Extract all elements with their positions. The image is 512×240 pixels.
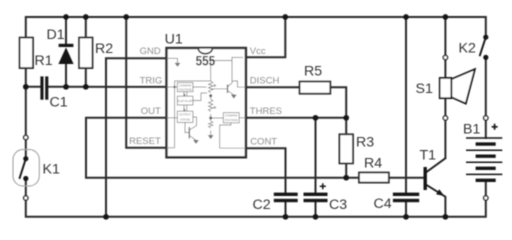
wire THRES	[246, 117, 346, 119]
svg-text:TRIG: TRIG	[140, 76, 163, 87]
speaker S1	[440, 69, 475, 103]
svg-text:DISCH: DISCH	[250, 76, 280, 87]
svg-text:R3: R3	[356, 135, 374, 151]
wire R3 top lead	[345, 118, 347, 135]
svg-text:THRES: THRES	[250, 106, 282, 117]
svg-text:VOLTAGE: VOLTAGE	[225, 118, 238, 122]
wire B1 bottom stub	[485, 180, 487, 196]
svg-text:FLIP-FLOP: FLIP-FLOP	[178, 99, 193, 103]
wire D1 top	[65, 17, 67, 44]
svg-text:C4: C4	[374, 196, 392, 212]
svg-text:D1: D1	[47, 27, 65, 43]
svg-text:RESET: RESET	[129, 136, 161, 147]
wire S1 top	[444, 17, 446, 55]
capacitor C4	[393, 193, 419, 203]
wire bottom rail	[26, 200, 486, 217]
resistor R3	[339, 134, 353, 163]
svg-text:R4: R4	[364, 156, 382, 172]
svg-text:K2: K2	[459, 41, 476, 57]
wire R2 bottom stub	[85, 68, 87, 87]
svg-text:Vcc: Vcc	[250, 46, 266, 57]
svg-text:555: 555	[196, 53, 216, 68]
resistor R4	[359, 173, 389, 183]
U1 internal box text	[178, 83, 238, 122]
U1 internal ground symbols	[175, 63, 236, 143]
wire Vcc riser	[246, 17, 285, 57]
wire K1 bottom link	[25, 179, 27, 196]
svg-text:C3: C3	[329, 197, 347, 213]
wire top rail	[26, 17, 486, 38]
svg-text:CONT: CONT	[250, 136, 277, 147]
svg-text:GND: GND	[140, 46, 161, 57]
wire R3 bottom lead	[345, 163, 347, 177]
switch K2	[480, 35, 489, 60]
wire GND net	[106, 58, 167, 217]
switch K1	[13, 150, 39, 187]
resistor R1	[20, 38, 33, 69]
B1 polarity plus	[492, 124, 498, 130]
svg-text:STAGE: STAGE	[180, 117, 190, 121]
battery B1	[466, 138, 502, 180]
U1 internal diagram	[167, 57, 246, 148]
wire R4 to T1 base	[389, 177, 424, 179]
U1 internal junction dots	[173, 86, 212, 120]
wire T1 collector riser	[444, 120, 446, 158]
capacitor C2	[274, 193, 298, 203]
svg-text:VOLTAGE: VOLTAGE	[178, 87, 191, 91]
wire B1 top stub	[485, 120, 487, 138]
svg-text:R1: R1	[35, 53, 53, 69]
U1 notch	[198, 49, 212, 54]
svg-text:B1: B1	[463, 121, 480, 137]
wire C2 bottom	[285, 202, 287, 217]
svg-text:C2: C2	[253, 197, 271, 213]
wire D1 bottom	[65, 64, 67, 87]
svg-text:S1: S1	[416, 81, 433, 97]
wire K1 link into box	[25, 140, 27, 159]
wire R5 to corner down	[330, 87, 346, 117]
svg-text:C1: C1	[50, 95, 68, 111]
svg-text:U1: U1	[165, 31, 183, 47]
wire C4 bottom	[405, 202, 407, 217]
wire K1 top	[25, 87, 27, 136]
svg-text:K1: K1	[43, 162, 60, 178]
svg-text:OUT: OUT	[141, 106, 161, 117]
wire C1 node horizontal	[26, 86, 41, 88]
svg-text:R5: R5	[304, 64, 322, 80]
wire R1 bottom stub	[25, 68, 27, 87]
wire C3 bottom	[315, 202, 317, 217]
wire CONT to C2	[246, 148, 286, 192]
wire K2 to B1	[485, 60, 487, 116]
op IC U1 555 box	[167, 48, 246, 157]
capacitor C3	[304, 193, 328, 203]
transistor T1	[425, 158, 446, 197]
resistor R2	[79, 38, 92, 69]
wire speaker to circle	[444, 98, 446, 116]
capacitor C1	[40, 76, 48, 99]
wire R2 top stub	[85, 17, 87, 38]
wire S1 to speaker	[444, 60, 446, 78]
pin labels	[129, 46, 282, 148]
svg-text:OUTPUT: OUTPUT	[179, 113, 191, 117]
diode D1	[58, 44, 73, 64]
wire C4 riser	[405, 17, 407, 193]
resistor R5	[300, 82, 331, 94]
terminal circles	[24, 55, 488, 200]
svg-text:T1: T1	[420, 148, 437, 164]
U1 internal plus marks	[213, 84, 216, 109]
wire OUT net	[86, 118, 359, 178]
wire RESET riser	[126, 17, 166, 148]
wire DISCH to R5	[246, 86, 300, 88]
wire C3 top	[315, 118, 317, 193]
wire C1 to TRIG pin	[48, 86, 166, 88]
C3 polarity plus	[320, 183, 326, 189]
wire T1 emitter drop	[444, 197, 446, 217]
svg-text:R2: R2	[95, 41, 113, 57]
